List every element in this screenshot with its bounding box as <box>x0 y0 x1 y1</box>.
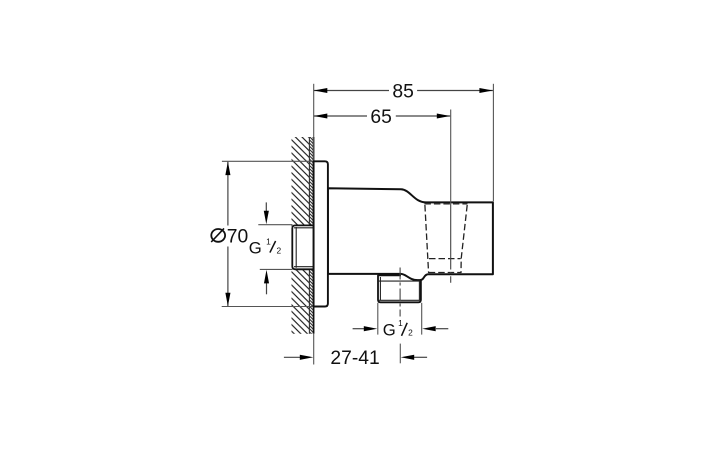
extension line D70 bottom <box>222 306 328 308</box>
holder cone right edge (dashed) <box>461 205 467 273</box>
inlet union inner lines <box>294 227 314 268</box>
inlet union white fill <box>292 225 313 269</box>
svg-text:1: 1 <box>398 318 403 328</box>
escutcheon plate <box>314 161 328 306</box>
27-41 arrow left <box>284 356 300 358</box>
outlet thread inner lines <box>379 277 420 300</box>
wall inner line <box>308 137 310 334</box>
holder centre line (dash-dot) <box>450 204 452 263</box>
wall hatch coarse band <box>292 137 310 334</box>
arrow 65 right <box>437 113 451 118</box>
dimension line 65 <box>314 115 451 117</box>
holder cone rim (dashed) <box>424 203 467 205</box>
wall face line <box>313 137 315 334</box>
arrow 85 left <box>314 88 328 93</box>
label G1/2 inlet <box>249 236 282 257</box>
dimension line 85 <box>314 90 493 92</box>
holder cone left edge (dashed) <box>425 205 429 273</box>
svg-text:2: 2 <box>408 327 413 337</box>
outlet thread outer <box>378 275 421 302</box>
arrow 85 right <box>479 88 493 93</box>
extension line 85 right <box>492 84 494 202</box>
outlet centre line (dash-dot) <box>399 268 401 317</box>
extension line 85 left <box>313 84 315 162</box>
G1/2 inlet extension bottom <box>260 268 293 270</box>
svg-text:65: 65 <box>370 107 391 128</box>
svg-text:G: G <box>249 238 262 257</box>
G1/2 outlet arrow right <box>436 328 448 330</box>
wall hatch fine strip <box>309 137 313 334</box>
27-41 extension right <box>399 344 401 364</box>
G1/2 outlet extension left <box>377 303 379 335</box>
holder cone bottom (dashed) <box>429 272 461 274</box>
G1/2 inlet arrow up <box>266 283 268 294</box>
holder cone inner step (dashed) <box>429 258 461 260</box>
svg-text:G: G <box>383 320 396 339</box>
G1/2 outlet arrow left <box>353 328 364 330</box>
svg-text:2: 2 <box>276 245 281 255</box>
arrow D70 up <box>225 162 230 176</box>
svg-text:70: 70 <box>227 226 248 247</box>
G1/2 outlet extension right <box>421 303 423 335</box>
svg-text:27-41: 27-41 <box>330 348 379 369</box>
svg-text:1: 1 <box>266 236 271 246</box>
arrow D70 down <box>225 293 230 307</box>
extension line D70 top <box>222 160 314 162</box>
27-41 extension left <box>313 334 315 365</box>
extension line 65 right upper <box>450 110 452 205</box>
svg-text:85: 85 <box>392 82 413 103</box>
label D70 <box>211 226 248 247</box>
27-41 arrow right <box>414 356 427 358</box>
dimension line D70 <box>227 162 229 306</box>
body outline <box>328 188 493 280</box>
G1/2 inlet arrow down <box>265 202 267 212</box>
arrow 65 left <box>314 113 328 118</box>
label G1/2 outlet <box>383 318 413 339</box>
G1/2 inlet extension top <box>258 224 292 226</box>
